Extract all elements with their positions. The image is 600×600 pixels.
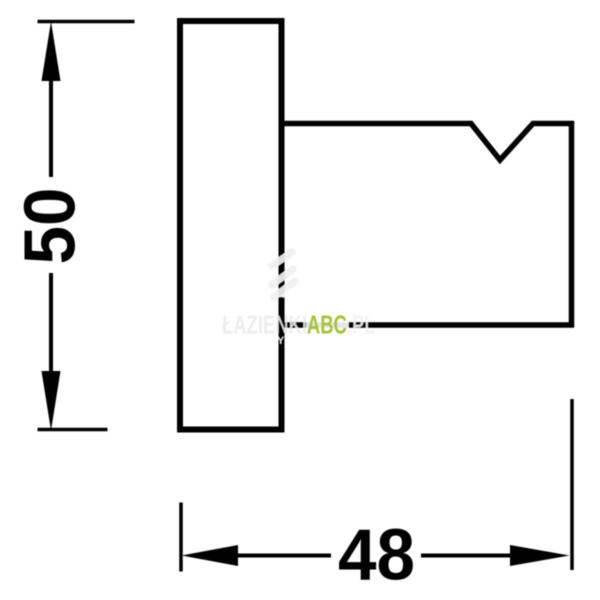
dimension line vertical 50 lower segment: [49, 273, 53, 371]
dimension line horizontal 48 left segment: [237, 554, 331, 558]
hook arm outline with v-notch: [282, 124, 572, 326]
arrowhead down: [42, 371, 61, 431]
svg-text:ŁAZIENKIABC.PL: ŁAZIENKIABC.PL: [222, 310, 376, 339]
svg-text:Y: Y: [277, 335, 285, 347]
arrowhead left: [182, 545, 239, 566]
watermark logo swirl: [272, 252, 295, 297]
svg-text:48: 48: [338, 516, 415, 596]
svg-text:50: 50: [11, 188, 91, 265]
extension line bottom left vertical (48 dim): [179, 503, 183, 572]
extension line bottom right vertical (48 dim): [570, 399, 574, 570]
arrowhead up: [42, 22, 61, 82]
dimension line horizontal 48 right segment: [421, 554, 511, 558]
watermark abc white backing: [306, 315, 349, 336]
wall plate rectangle: [180, 21, 282, 430]
extension line bottom-left (50 dim): [38, 428, 108, 432]
watermark text lazienkiabc.pl: [222, 310, 376, 339]
watermark swirl bright wedge: [279, 288, 290, 298]
extension line top (50 dim): [38, 20, 135, 24]
dimension line vertical 50 upper segment: [49, 80, 53, 177]
arrowhead right: [510, 545, 570, 566]
